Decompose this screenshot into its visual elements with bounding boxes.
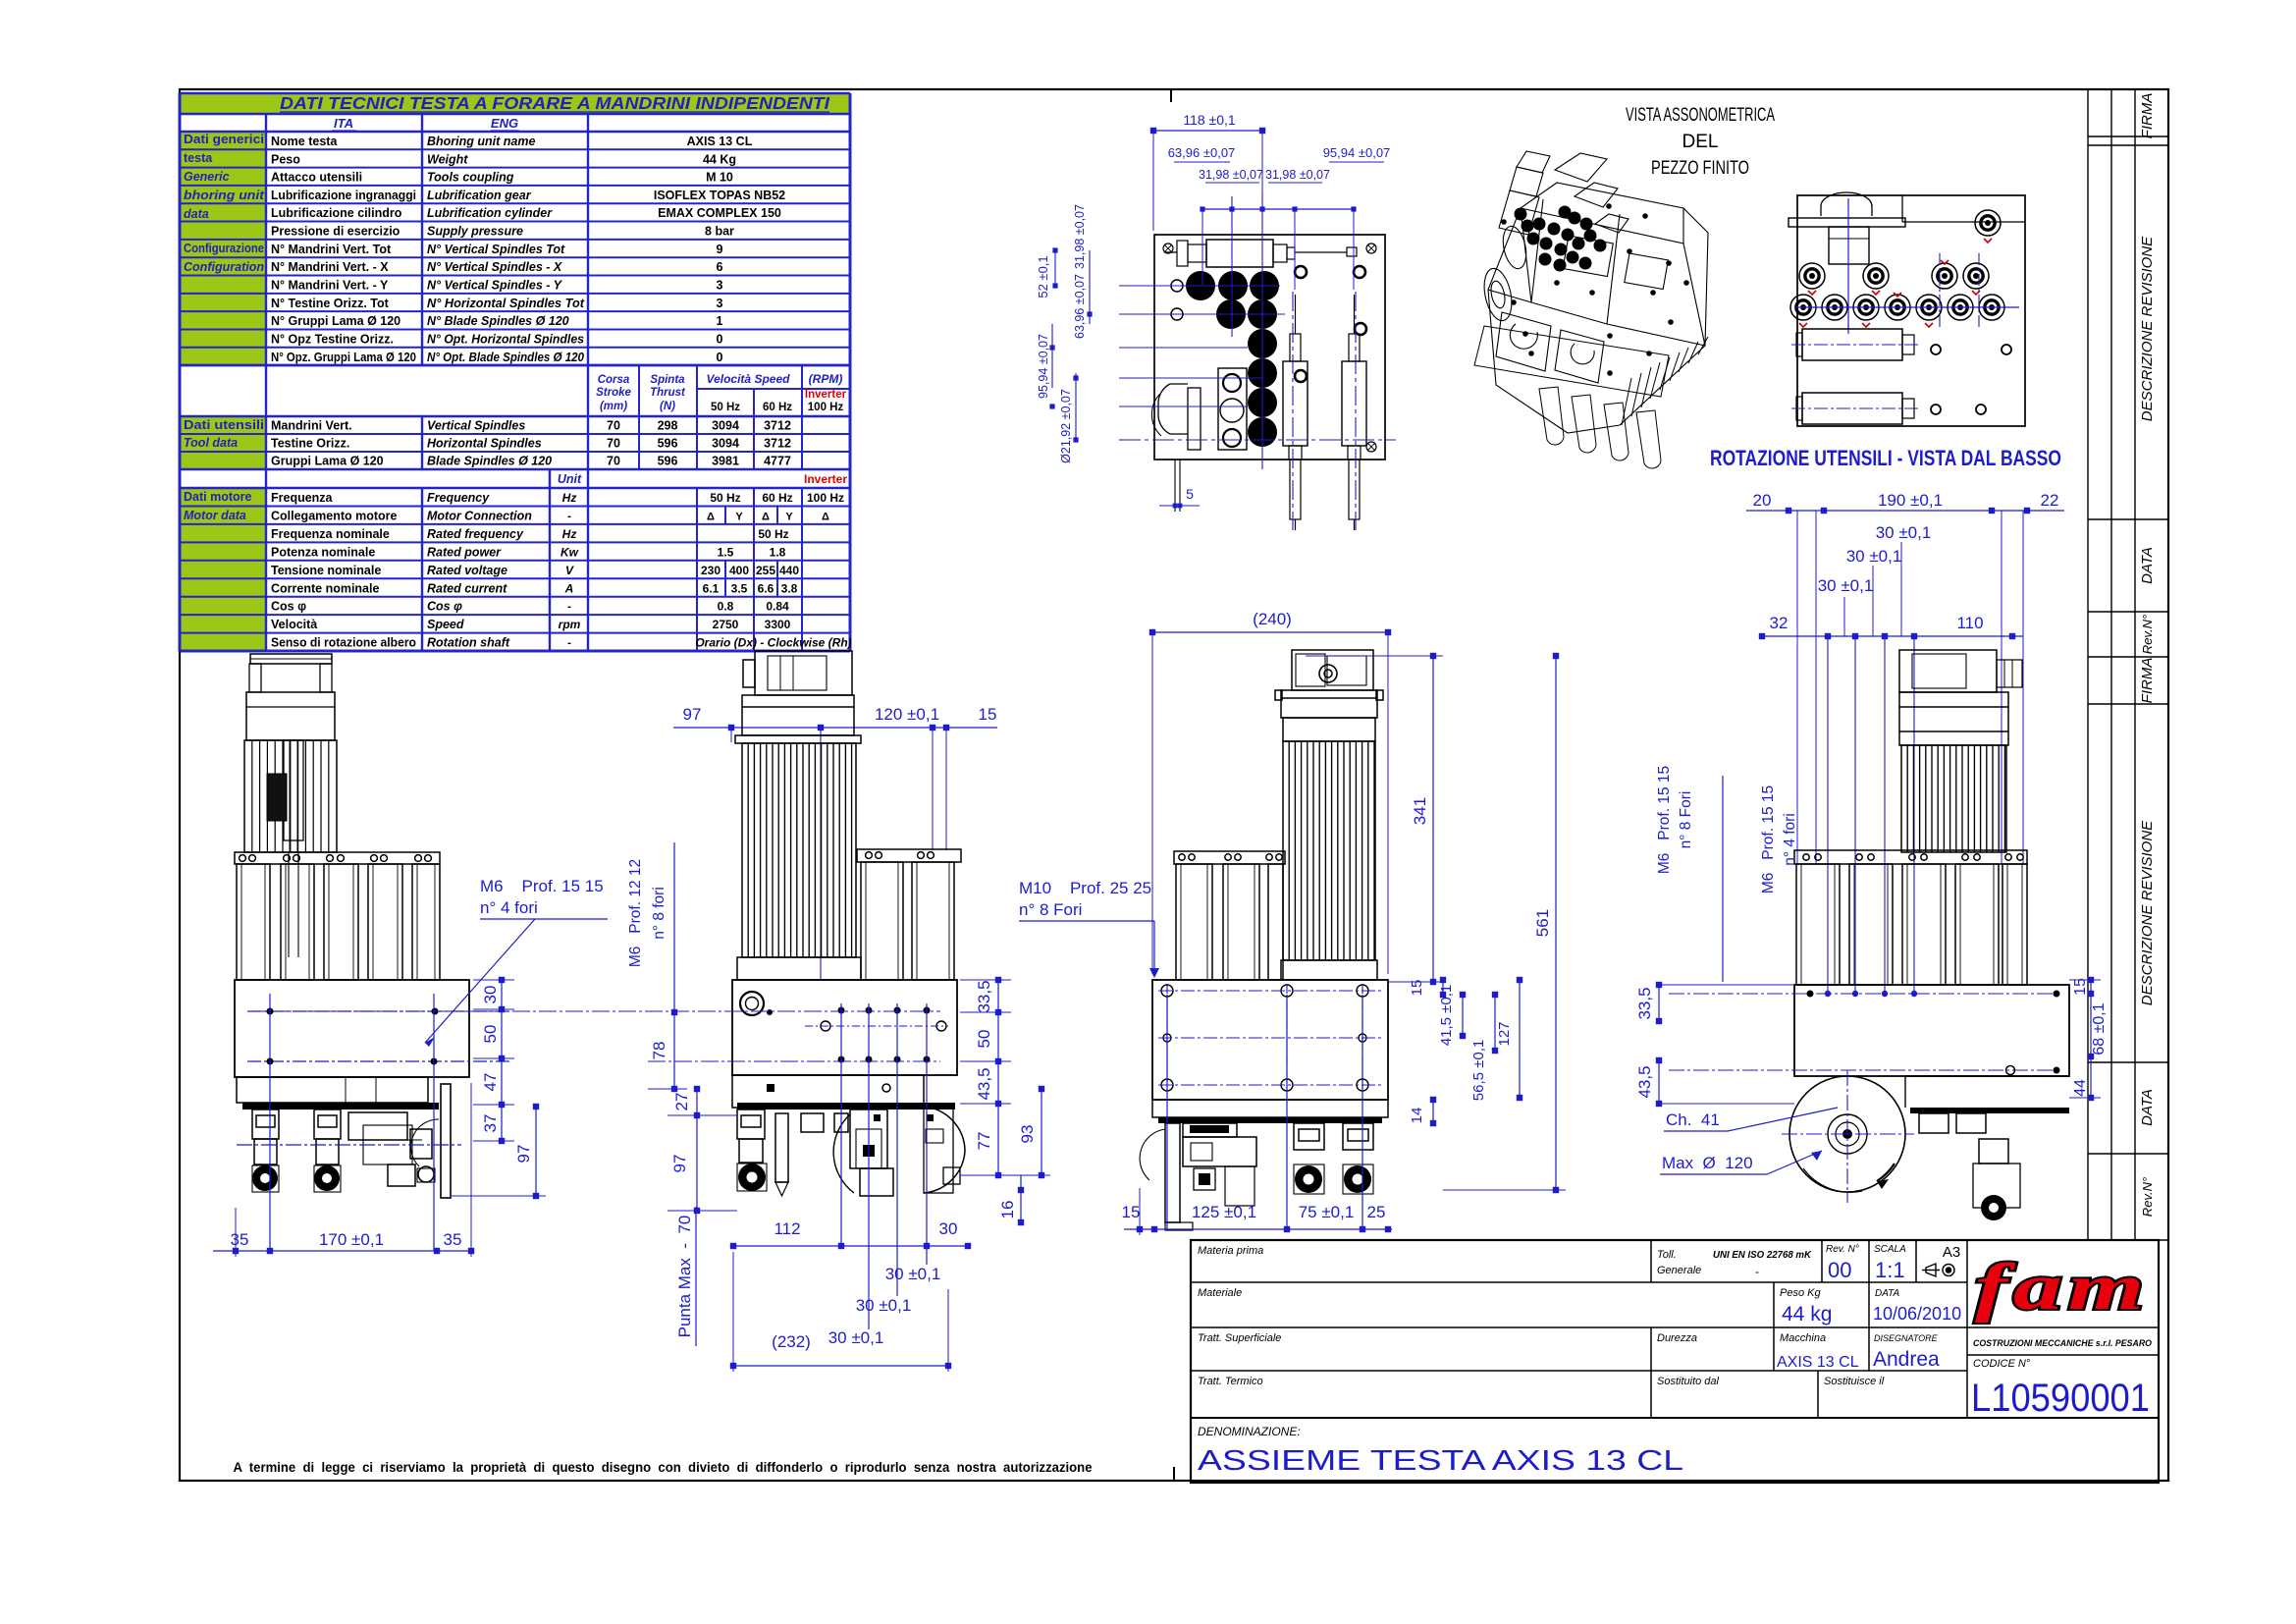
- svg-text:70: 70: [607, 437, 620, 451]
- svg-text:30 ±0,1: 30 ±0,1: [1818, 576, 1874, 595]
- svg-text:AXIS 13 CL: AXIS 13 CL: [1777, 1354, 1859, 1371]
- svg-text:Spinta: Spinta: [650, 374, 685, 386]
- svg-text:Configuration: Configuration: [184, 260, 264, 274]
- V4 extension verticals top: [1796, 511, 1798, 864]
- V2 center stubs: [801, 1113, 824, 1132]
- green cell Dati utensili: [180, 416, 266, 469]
- svg-text:Cos φ: Cos φ: [427, 600, 462, 614]
- svg-text:75 ±0,1: 75 ±0,1: [1299, 1203, 1355, 1221]
- V3 motor foot: [1281, 960, 1377, 980]
- svg-text:-: -: [567, 600, 571, 614]
- svg-text:15: 15: [2072, 978, 2089, 996]
- svg-text:97: 97: [514, 1145, 533, 1164]
- svg-text:N° Blade Spindles Ø 120: N° Blade Spindles Ø 120: [427, 314, 569, 328]
- svg-text:Senso di rotazione albero: Senso di rotazione albero: [271, 636, 416, 650]
- svg-text:78: 78: [650, 1042, 668, 1060]
- svg-text:(240): (240): [1253, 610, 1292, 628]
- top view small holes left: [1171, 280, 1183, 292]
- svg-text:190 ±0,1: 190 ±0,1: [1878, 491, 1943, 510]
- svg-text:n° 8 Fori: n° 8 Fori: [1678, 791, 1694, 849]
- svg-text:15: 15: [1409, 980, 1425, 997]
- svg-text:44 Kg: 44 Kg: [703, 152, 736, 166]
- svg-text:15: 15: [979, 705, 997, 724]
- svg-text:0.84: 0.84: [766, 600, 789, 614]
- V3 gearbox centerlines: [1158, 990, 1382, 992]
- green header band: [180, 93, 850, 114]
- svg-text:Orario (Dx) - Clockwise (Rh): Orario (Dx) - Clockwise (Rh): [695, 636, 851, 650]
- svg-text:43,5: 43,5: [975, 1067, 993, 1100]
- V4 column flange: [1794, 850, 2027, 864]
- V2 motor cap: [742, 695, 854, 735]
- RV top bar: [1789, 218, 1905, 227]
- RV cylinder 2: [1802, 393, 1902, 424]
- svg-text:N° Opt. Horizontal Spindles: N° Opt. Horizontal Spindles: [427, 332, 584, 346]
- V1 gearbox: [235, 980, 469, 1077]
- svg-text:AXIS 13 CL: AXIS 13 CL: [687, 135, 753, 148]
- svg-text:Rated power: Rated power: [427, 545, 502, 559]
- V3 left assembly: [1183, 1123, 1237, 1137]
- V3 motor cap: [1281, 690, 1377, 718]
- V1 right dimension 97: [535, 1107, 537, 1196]
- svg-text:44: 44: [2072, 1079, 2089, 1097]
- V1 spindle unit A: [252, 1110, 279, 1139]
- svg-text:N° Testine Orizz. Tot: N° Testine Orizz. Tot: [271, 297, 390, 310]
- svg-text:60 Hz: 60 Hz: [762, 491, 792, 505]
- isometric view of finished piece: [1480, 151, 1708, 433]
- svg-text:Andrea: Andrea: [1873, 1348, 1940, 1371]
- svg-text:L10590001: L10590001: [1971, 1377, 2150, 1420]
- V3 right dim 561: [1555, 656, 1557, 1190]
- svg-text:Tools coupling: Tools coupling: [427, 171, 514, 185]
- svg-text:3.5: 3.5: [731, 581, 748, 595]
- svg-text:10/06/2010: 10/06/2010: [1873, 1304, 1961, 1324]
- V2 spindle unit A: [737, 1110, 765, 1139]
- V3 lower band: [1152, 1100, 1388, 1117]
- svg-text:Corrente nominale: Corrente nominale: [271, 581, 379, 595]
- V4 motor connector box: [1899, 650, 1997, 692]
- RV small holes: [1931, 345, 1941, 354]
- V4 saw circle centerlines: [1846, 1070, 1848, 1203]
- svg-text:Tratt. Termico: Tratt. Termico: [1198, 1376, 1263, 1387]
- top view right small donuts: [1295, 266, 1307, 278]
- svg-text:PEZZO FINITO: PEZZO FINITO: [1651, 158, 1749, 179]
- V2 bottom dimension 112 / 30: [733, 1245, 968, 1247]
- svg-text:95,94 ±0,07: 95,94 ±0,07: [1323, 145, 1391, 160]
- svg-text:Tensione nominale: Tensione nominale: [271, 564, 381, 577]
- svg-text:27: 27: [672, 1093, 691, 1111]
- green cell Configurazione: [180, 240, 266, 365]
- svg-text:9: 9: [717, 243, 723, 256]
- svg-text:Ch. 41: Ch. 41: [1666, 1110, 1720, 1129]
- V1 motor side tabs: [249, 664, 261, 692]
- svg-text:UNI EN ISO 22768 mK: UNI EN ISO 22768 mK: [1713, 1250, 1812, 1261]
- V1 motor top plate: [250, 654, 332, 664]
- svg-text:(N): (N): [660, 401, 675, 412]
- svg-text:Bhoring unit name: Bhoring unit name: [427, 135, 535, 148]
- green cell Dati generici: [180, 132, 266, 240]
- svg-text:70: 70: [607, 455, 620, 468]
- svg-text:561: 561: [1533, 909, 1552, 937]
- svg-text:DESCRIZIONE REVISIONE: DESCRIZIONE REVISIONE: [2139, 820, 2156, 1005]
- V1 motor connector box: [267, 774, 287, 821]
- svg-text:M6 Prof. 12 12: M6 Prof. 12 12: [627, 859, 644, 967]
- svg-text:A: A: [564, 581, 574, 595]
- V2 hole position verticals: [840, 1003, 842, 1246]
- svg-text:Lubrificazione cilindro: Lubrificazione cilindro: [271, 206, 402, 220]
- svg-text:Dati motore: Dati motore: [184, 490, 252, 504]
- svg-text:n° 4 fori: n° 4 fori: [1782, 813, 1798, 866]
- svg-text:52 ±0,1: 52 ±0,1: [1036, 255, 1050, 298]
- svg-text:31,98 ±0,07: 31,98 ±0,07: [1073, 204, 1087, 269]
- svg-text:30 ±0,1: 30 ±0,1: [828, 1328, 884, 1347]
- svg-text:Lubrification gear: Lubrification gear: [427, 189, 532, 202]
- svg-text:ROTAZIONE UTENSILI - VISTA DAL: ROTAZIONE UTENSILI - VISTA DAL BASSO: [1710, 446, 2061, 470]
- V1 cylinder body: [244, 740, 337, 852]
- fold mark top: [1170, 89, 1172, 102]
- svg-text:ENG: ENG: [491, 116, 518, 131]
- V2 drill rod: [775, 1113, 788, 1182]
- svg-text:Δ: Δ: [762, 511, 770, 522]
- V2 curved housing: [924, 1107, 965, 1193]
- svg-text:50: 50: [481, 1025, 500, 1044]
- svg-text:35: 35: [231, 1230, 249, 1249]
- svg-text:00: 00: [1828, 1258, 1851, 1282]
- V2 gearbox: [732, 980, 957, 1075]
- drawing frame border: [180, 89, 2168, 1481]
- svg-text:N° Gruppi Lama Ø 120: N° Gruppi Lama Ø 120: [271, 314, 400, 328]
- svg-text:1.8: 1.8: [770, 545, 786, 559]
- svg-text:30 ±0,1: 30 ±0,1: [885, 1265, 941, 1283]
- svg-text:Dati generici: Dati generici: [184, 133, 264, 146]
- V3 motor connector box: [1292, 650, 1373, 690]
- V1 horizontal unit: [348, 1112, 407, 1140]
- svg-text:0.8: 0.8: [718, 600, 734, 614]
- svg-text:Lubrificazione ingranaggi: Lubrificazione ingranaggi: [271, 189, 416, 202]
- V2 motor foot: [737, 957, 861, 980]
- RV centerlines: [1794, 306, 2019, 308]
- svg-text:Stroke: Stroke: [596, 387, 631, 399]
- svg-text:77: 77: [975, 1132, 993, 1151]
- V3 right stacked dims: [1442, 980, 1444, 995]
- svg-text:3712: 3712: [764, 419, 791, 433]
- svg-text:Inverter: Inverter: [804, 472, 847, 486]
- V2 right dimension 16: [1020, 1175, 1022, 1222]
- V1 gearbox centerline holes: [247, 1010, 509, 1012]
- svg-text:1:1: 1:1: [1875, 1258, 1905, 1282]
- svg-text:68 ±0,1: 68 ±0,1: [2091, 1002, 2108, 1055]
- V2 left dimension 27 and 97: [696, 1089, 698, 1211]
- svg-text:70: 70: [607, 419, 620, 433]
- svg-text:Rev.N°: Rev.N°: [2140, 1177, 2155, 1217]
- svg-text:3981: 3981: [712, 455, 739, 468]
- svg-text:118 ±0,1: 118 ±0,1: [1183, 112, 1236, 128]
- V1 hole position centerlines vertical: [269, 994, 271, 1251]
- top view dim 5: [1174, 460, 1176, 512]
- top view gear cluster: [1186, 271, 1215, 300]
- svg-text:ITA: ITA: [334, 116, 353, 131]
- svg-text:Gruppi Lama Ø 120: Gruppi Lama Ø 120: [271, 455, 384, 468]
- V4 gearbox centerlines: [1669, 993, 2061, 995]
- svg-text:30 ±0,1: 30 ±0,1: [856, 1296, 912, 1315]
- svg-text:Blade Spindles Ø 120: Blade Spindles Ø 120: [427, 455, 552, 468]
- V1 column flange: [235, 852, 440, 864]
- V3 spindle unit A: [1294, 1123, 1324, 1150]
- V3 gearbox bolt holes: [1161, 985, 1173, 997]
- svg-text:30 ±0,1: 30 ±0,1: [1846, 547, 1902, 566]
- svg-text:120 ±0,1: 120 ±0,1: [875, 705, 939, 724]
- svg-text:6.6: 6.6: [758, 581, 774, 595]
- svg-text:Dati utensili: Dati utensili: [184, 418, 264, 432]
- svg-text:N° Vertical Spindles - Y: N° Vertical Spindles - Y: [427, 279, 563, 293]
- V4 motor ribbed body: [1901, 745, 2006, 852]
- svg-text:Generale: Generale: [1657, 1265, 1701, 1276]
- svg-text:(mm): (mm): [600, 401, 627, 412]
- svg-text:ISOFLEX TOPAS NB52: ISOFLEX TOPAS NB52: [654, 189, 785, 202]
- svg-text:Motor data: Motor data: [184, 509, 246, 522]
- svg-text:97: 97: [683, 705, 702, 724]
- svg-text:ASSIEME TESTA AXIS 13 CL: ASSIEME TESTA AXIS 13 CL: [1198, 1445, 1683, 1477]
- svg-text:15: 15: [1122, 1203, 1141, 1221]
- V2 long hole centerlines across views: [247, 1010, 940, 1012]
- svg-text:3: 3: [717, 279, 723, 293]
- svg-text:Supply pressure: Supply pressure: [427, 225, 523, 239]
- svg-text:Velocità Speed: Velocità Speed: [707, 372, 791, 386]
- svg-text:255: 255: [756, 564, 775, 577]
- svg-text:Motor Connection: Motor Connection: [427, 509, 532, 522]
- svg-text:bhoring unit: bhoring unit: [184, 189, 265, 202]
- svg-text:35: 35: [444, 1230, 462, 1249]
- V2 right dimension 93: [1041, 1089, 1042, 1175]
- svg-text:CODICE N°: CODICE N°: [1973, 1358, 2031, 1370]
- svg-text:0: 0: [717, 332, 723, 346]
- V3 motor ribbed body: [1283, 741, 1375, 960]
- svg-text:3.8: 3.8: [781, 581, 798, 595]
- V1 motor cap: [246, 692, 335, 740]
- svg-text:testa: testa: [184, 151, 213, 165]
- svg-text:Hz: Hz: [562, 527, 577, 541]
- svg-text:5: 5: [1186, 486, 1194, 502]
- svg-text:Sostituisce il: Sostituisce il: [1824, 1376, 1885, 1387]
- svg-text:n° 4 fori: n° 4 fori: [480, 898, 538, 917]
- svg-text:Collegamento motore: Collegamento motore: [271, 509, 398, 522]
- RV donut tools row: [1790, 295, 1816, 320]
- svg-text:-: -: [567, 636, 571, 650]
- svg-text:Peso: Peso: [271, 152, 300, 166]
- svg-text:Frequency: Frequency: [427, 491, 490, 505]
- svg-text:95,94 ±0,07: 95,94 ±0,07: [1037, 334, 1050, 399]
- svg-text:341: 341: [1411, 797, 1429, 825]
- svg-text:50 Hz: 50 Hz: [758, 527, 788, 541]
- svg-text:14: 14: [1409, 1108, 1425, 1124]
- svg-text:N° Vertical Spindles - X: N° Vertical Spindles - X: [427, 260, 562, 274]
- V2 dowel holes: [821, 1021, 830, 1031]
- isometric gear cluster: [1501, 203, 1689, 376]
- svg-text:112: 112: [774, 1219, 800, 1238]
- svg-text:125 ±0,1: 125 ±0,1: [1192, 1203, 1256, 1221]
- svg-text:DENOMINAZIONE:: DENOMINAZIONE:: [1198, 1425, 1301, 1438]
- svg-text:6.1: 6.1: [703, 581, 720, 595]
- V3 bottom dims 15 / 125 / 75 / 25: [1124, 1228, 1392, 1230]
- RV plate: [1797, 195, 2025, 426]
- svg-text:596: 596: [658, 455, 678, 468]
- svg-text:110: 110: [1956, 614, 1983, 632]
- V4 gearbox lower edge partial: [1905, 1075, 2069, 1077]
- V2 angular head: [850, 1110, 887, 1168]
- svg-text:Tratt. Superficiale: Tratt. Superficiale: [1198, 1332, 1281, 1344]
- V4 gearbox: [1794, 985, 2069, 1076]
- svg-text:M6 Prof. 15 15: M6 Prof. 15 15: [1656, 766, 1673, 874]
- fold mark bottom: [1173, 1467, 1175, 1481]
- svg-text:Frequenza: Frequenza: [271, 491, 334, 505]
- RV upper donuts: [1799, 263, 1825, 289]
- svg-text:Testine Orizz.: Testine Orizz.: [271, 437, 349, 451]
- svg-text:DESCRIZIONE REVISIONE: DESCRIZIONE REVISIONE: [2139, 236, 2156, 421]
- svg-text:Rev. N°: Rev. N°: [1826, 1244, 1859, 1255]
- svg-text:37: 37: [481, 1114, 500, 1133]
- svg-text:Generic: Generic: [184, 170, 230, 184]
- svg-text:4777: 4777: [764, 455, 791, 468]
- V4 left dims 33,5 / 43,5: [1658, 985, 1660, 1021]
- svg-text:33,5: 33,5: [1635, 987, 1654, 1019]
- svg-text:Weight: Weight: [427, 152, 468, 166]
- svg-text:N° Horizontal Spindles Tot: N° Horizontal Spindles Tot: [427, 297, 585, 310]
- svg-text:3094: 3094: [712, 419, 739, 433]
- svg-text:V: V: [565, 564, 574, 577]
- V2 gearbox hole dots: [838, 1007, 845, 1014]
- svg-text:298: 298: [658, 419, 678, 433]
- svg-text:596: 596: [658, 437, 678, 451]
- technical data table: [180, 93, 850, 651]
- svg-text:93: 93: [1018, 1125, 1037, 1144]
- V2 left dimension 78: [673, 842, 675, 1089]
- svg-text:(232): (232): [772, 1332, 811, 1351]
- svg-text:(RPM): (RPM): [809, 372, 843, 386]
- V1 spindle mounting strip: [242, 1103, 439, 1110]
- svg-text:Rotation shaft: Rotation shaft: [427, 636, 510, 650]
- svg-text:Rated voltage: Rated voltage: [427, 564, 507, 577]
- V1 spindle unit B: [314, 1110, 341, 1139]
- svg-text:-: -: [567, 509, 571, 522]
- svg-text:25: 25: [1367, 1203, 1386, 1221]
- svg-text:100 Hz: 100 Hz: [807, 491, 844, 505]
- svg-text:8 bar: 8 bar: [705, 225, 734, 239]
- svg-text:DATA: DATA: [1875, 1288, 1900, 1299]
- top view pitch dim line: [1202, 208, 1354, 210]
- svg-text:Attacco utensili: Attacco utensili: [271, 171, 362, 185]
- top view plate: [1154, 235, 1385, 460]
- V2 motor connector box: [755, 651, 852, 695]
- V2 right column section: [857, 849, 961, 862]
- V2 spindle mounting strip: [737, 1103, 955, 1110]
- svg-text:FIRMA: FIRMA: [2139, 658, 2156, 704]
- svg-text:Pressione di esercizio: Pressione di esercizio: [271, 225, 400, 239]
- svg-text:Tool data: Tool data: [184, 436, 238, 450]
- svg-text:1.5: 1.5: [718, 545, 734, 559]
- svg-text:N° Vertical Spindles Tot: N° Vertical Spindles Tot: [427, 243, 565, 256]
- svg-text:3300: 3300: [765, 618, 791, 631]
- svg-text:50: 50: [975, 1030, 993, 1049]
- svg-text:30: 30: [939, 1219, 958, 1238]
- V1 lower band: [237, 1077, 428, 1103]
- svg-text:DATA: DATA: [2139, 547, 2156, 584]
- top view side rod: [1295, 251, 1347, 253]
- svg-text:M 10: M 10: [706, 171, 733, 185]
- svg-text:0: 0: [717, 351, 723, 364]
- V4 right dims 15 / 68 / 44: [2090, 980, 2092, 994]
- RV top tab: [1821, 192, 1872, 216]
- svg-text:Horizontal Spindles: Horizontal Spindles: [427, 437, 542, 451]
- svg-text:Durezza: Durezza: [1657, 1332, 1697, 1344]
- svg-text:Speed: Speed: [427, 618, 464, 631]
- svg-text:Macchina: Macchina: [1780, 1332, 1826, 1344]
- svg-text:Toll.: Toll.: [1657, 1249, 1677, 1261]
- svg-text:3: 3: [717, 297, 723, 310]
- svg-text:N° Opz. Gruppi Lama Ø 120: N° Opz. Gruppi Lama Ø 120: [271, 351, 416, 364]
- svg-text:A termine di legge ci ris: A termine di legge ci riserviamo la prop…: [234, 1460, 1093, 1475]
- svg-text:Lubrification cylinder: Lubrification cylinder: [427, 206, 553, 220]
- svg-text:Y: Y: [735, 511, 743, 522]
- svg-text:Cos φ: Cos φ: [271, 600, 306, 614]
- svg-text:Kw: Kw: [561, 545, 579, 559]
- V2 motor ribbed body: [742, 743, 856, 957]
- svg-text:rpm: rpm: [559, 618, 581, 631]
- svg-text:Inverter: Inverter: [805, 389, 847, 401]
- V4 hole verticals into gearbox: [1827, 636, 1829, 997]
- svg-text:Δ: Δ: [822, 511, 829, 522]
- V1 spindle centerline: [237, 1144, 461, 1146]
- svg-text:Velocità: Velocità: [271, 618, 317, 631]
- svg-text:47: 47: [481, 1073, 500, 1092]
- svg-text:230: 230: [701, 564, 721, 577]
- svg-text:N° Opz Testine Orizz.: N° Opz Testine Orizz.: [271, 332, 394, 346]
- RV shaft: [1829, 227, 1869, 264]
- svg-text:63,96 ±0,07: 63,96 ±0,07: [1073, 274, 1087, 339]
- svg-text:3712: 3712: [764, 437, 791, 451]
- svg-text:Peso Kg: Peso Kg: [1780, 1287, 1821, 1299]
- svg-text:41,5 ±0,1: 41,5 ±0,1: [1438, 985, 1455, 1046]
- svg-text:170 ±0,1: 170 ±0,1: [319, 1230, 384, 1249]
- svg-text:N° Mandrini Vert. - Y: N° Mandrini Vert. - Y: [271, 279, 389, 293]
- V3 left column section: [1174, 851, 1285, 864]
- svg-text:127: 127: [1496, 1021, 1513, 1046]
- svg-text:20: 20: [1753, 491, 1772, 510]
- svg-text:3094: 3094: [712, 437, 739, 451]
- V2 gearbox lifting hole: [740, 992, 764, 1015]
- svg-text:Sostituito dal: Sostituito dal: [1657, 1376, 1720, 1387]
- svg-text:DISEGNATORE: DISEGNATORE: [1874, 1333, 1939, 1343]
- svg-text:Potenza nominale: Potenza nominale: [271, 545, 375, 559]
- svg-text:63,96 ±0,07: 63,96 ±0,07: [1168, 145, 1236, 160]
- svg-text:30 ±0,1: 30 ±0,1: [1876, 523, 1932, 542]
- svg-text:Rated frequency: Rated frequency: [427, 527, 524, 541]
- svg-text:Materiale: Materiale: [1198, 1287, 1242, 1299]
- svg-text:data: data: [184, 207, 209, 221]
- svg-text:A3: A3: [1943, 1244, 1960, 1261]
- top view clamp assembly: [1206, 240, 1273, 267]
- V4 columns: [1796, 864, 1840, 985]
- V3 right dim 341: [1432, 656, 1434, 982]
- svg-text:N° Mandrini Vert. - X: N° Mandrini Vert. - X: [271, 260, 389, 274]
- svg-text:DATI TECNICI TESTA A FORARE A: DATI TECNICI TESTA A FORARE A MANDRINI I…: [280, 93, 830, 113]
- top view lower-left unit: [1218, 368, 1247, 450]
- svg-text:31,98 ±0,07: 31,98 ±0,07: [1265, 168, 1330, 182]
- svg-text:SCALA: SCALA: [1874, 1244, 1906, 1255]
- svg-text:32: 32: [1770, 614, 1789, 632]
- svg-text:Ø21,92 ±0,07: Ø21,92 ±0,07: [1059, 389, 1073, 463]
- svg-text:400: 400: [729, 564, 749, 577]
- svg-text:Rev.N°: Rev.N°: [2140, 615, 2155, 654]
- V1 columns: [237, 864, 270, 980]
